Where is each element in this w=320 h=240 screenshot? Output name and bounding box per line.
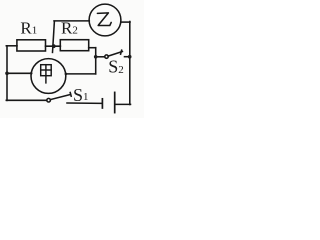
wire: right rail [129, 22, 131, 105]
voltmeter Z circle [89, 4, 121, 36]
switch S2 pivot circle [105, 55, 108, 58]
wire: battery to right rail [115, 103, 130, 105]
junction dot S2 left tap [94, 55, 98, 59]
wire: meter JIA right lead [66, 73, 96, 75]
wire: bottom rail to S1 [6, 99, 47, 101]
wire: inner right rail [95, 48, 97, 74]
switch S1 lever tip tick [70, 93, 71, 97]
battery negative plate (short) [101, 99, 103, 108]
wire: meter JIA left lead [6, 72, 31, 74]
wire: node A riser to voltmeter branch [53, 21, 55, 52]
switch S2 lever [108, 52, 122, 57]
junction dot JIA left terminal [30, 72, 33, 75]
switch S1 lever [50, 94, 70, 99]
switch S2 lever tip tick [121, 50, 122, 54]
node A junction dot [52, 44, 56, 48]
junction dot JIA right terminal [65, 73, 68, 76]
ammeter JIA circle [31, 59, 66, 94]
wire: S2 fixed contact stub [125, 56, 130, 58]
wire: R1 to R2 via node A [46, 45, 61, 47]
meter Z glyph (Chinese yi) [97, 13, 111, 26]
wire: R2 right to inner rail [89, 47, 96, 49]
resistor R2 box [60, 40, 88, 51]
meter JIA glyph (Chinese jia) [41, 65, 52, 83]
wire: branch top horizontal to meter Z [54, 20, 89, 22]
wire: left rail [6, 46, 8, 101]
wire: top-left to R1 [6, 45, 17, 47]
resistor R1 box [17, 40, 46, 51]
wire: S1 contact to battery [67, 102, 102, 104]
wire: meter Z right lead [121, 21, 130, 23]
wire: S2 left lead [96, 56, 105, 58]
background [0, 0, 144, 118]
junction dot S2 right tap on right rail [128, 55, 132, 59]
switch S1 pivot circle [47, 98, 51, 102]
battery positive plate (long) [114, 92, 116, 112]
junction dot left rail / JIA lead [5, 72, 9, 76]
